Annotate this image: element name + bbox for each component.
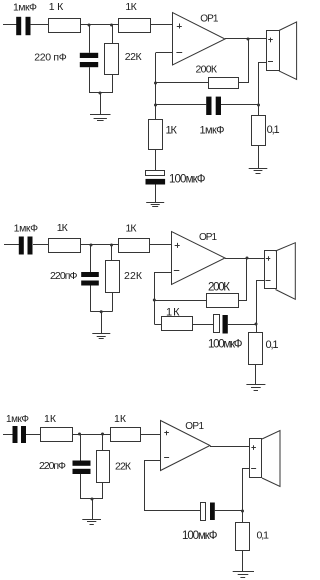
wire to ground [92, 499, 94, 519]
capacitor C5 1мкФ [14, 223, 39, 255]
svg-text:OP1: OP1 [200, 14, 219, 25]
svg-text:1К: 1К [114, 413, 127, 425]
ground [249, 169, 268, 174]
wire [89, 67, 91, 93]
node K [153, 299, 156, 302]
ground [82, 520, 101, 525]
capacitor C9 220пФ [39, 460, 91, 474]
node B [110, 24, 113, 27]
capacitor C7 100мкФ [208, 315, 243, 351]
svg-text:220пФ: 220пФ [50, 270, 78, 282]
resistor R6 1K [49, 222, 81, 253]
wire [144, 510, 201, 512]
node Q [241, 510, 244, 513]
wire node O down [102, 434, 104, 450]
node L [246, 257, 249, 260]
svg-text:1К: 1К [126, 223, 138, 235]
wire inverting input [154, 272, 171, 274]
wire to ground [100, 93, 102, 115]
svg-text:OP1: OP1 [199, 232, 217, 243]
capacitor C8 1мкФ [6, 414, 29, 443]
ground [233, 572, 254, 578]
wire to op-amp [151, 24, 173, 26]
capacitor C6 220пФ [50, 270, 99, 286]
capacitor C10 100мкФ [182, 503, 218, 543]
wire speaker minus [257, 281, 265, 334]
wire [156, 82, 209, 84]
resistor 22K [105, 44, 143, 75]
svg-text:100мкФ: 100мкФ [182, 530, 218, 542]
wire bottom join [90, 92, 112, 94]
wire [255, 365, 257, 385]
svg-text:1К: 1К [125, 1, 137, 13]
svg-text:1мкФ: 1мкФ [6, 414, 29, 425]
resistor R5 0,1 [252, 116, 280, 146]
wire [154, 324, 161, 326]
node F [247, 38, 250, 41]
svg-text:22К: 22К [115, 461, 132, 473]
resistor R3 200K [196, 64, 239, 89]
resistor R13 0,1 [236, 523, 270, 551]
resistor R12 1K [111, 413, 141, 442]
speaker LS3 [250, 431, 281, 487]
svg-text:22К: 22К [125, 51, 143, 63]
op-amp U3 OP1 [161, 421, 211, 471]
svg-text:200К: 200К [208, 282, 230, 294]
wire speaker minus [259, 63, 267, 116]
wire inverting input [144, 460, 161, 462]
wire node B down [112, 25, 114, 43]
wire [221, 104, 259, 106]
speaker LS2 [265, 243, 296, 300]
wire [228, 324, 256, 326]
node D [154, 82, 157, 85]
resistor R4 1K [149, 120, 178, 150]
wire [112, 75, 114, 93]
svg-text:1К: 1К [44, 413, 57, 425]
wire [26, 434, 40, 436]
node M [255, 323, 258, 326]
ground [246, 385, 265, 391]
wire to ground [101, 312, 103, 334]
svg-text:1мкФ: 1мкФ [14, 223, 39, 235]
wire feedback vertical [154, 272, 156, 324]
svg-text:1К: 1К [166, 307, 180, 319]
svg-text:220 пФ: 220 пФ [34, 52, 67, 64]
wire speaker minus [243, 469, 250, 523]
ground [92, 334, 110, 339]
wire inverting input [156, 52, 173, 54]
wire input 2 [4, 244, 19, 246]
wire [102, 483, 104, 500]
svg-text:1К: 1К [166, 125, 178, 137]
node I [110, 244, 113, 247]
resistor R1 1K [49, 1, 81, 33]
svg-text:0,1: 0,1 [267, 124, 280, 136]
wire to op-amp [140, 434, 161, 436]
wire node I down [111, 245, 113, 260]
svg-text:0,1: 0,1 [266, 339, 279, 351]
wire [73, 434, 111, 436]
node P [91, 498, 94, 501]
op-amp U1 OP1 [173, 13, 226, 66]
wire input 1 [3, 24, 17, 26]
wire input 3 [3, 434, 13, 436]
capacitor C1 1мкФ [13, 2, 37, 36]
wire [239, 39, 249, 83]
svg-text:200К: 200К [196, 64, 218, 76]
capacitor C3 1мкФ [200, 97, 225, 137]
resistor R7 1K [119, 223, 150, 253]
wire [258, 146, 260, 169]
wire output [225, 258, 264, 260]
wire [193, 324, 214, 326]
resistor R8 200K [207, 282, 239, 308]
node N [78, 433, 81, 436]
node A [88, 24, 91, 27]
speaker LS1 [267, 22, 297, 80]
node O [101, 433, 104, 436]
wire feedback vertical [144, 460, 146, 511]
svg-text:1К: 1К [49, 1, 64, 13]
resistor R10 0,1 [249, 333, 279, 365]
wire bottom join [91, 311, 113, 313]
wire [90, 286, 92, 312]
node E [154, 104, 157, 107]
svg-text:0,1: 0,1 [257, 530, 270, 542]
op-amp U2 OP1 [172, 232, 226, 285]
wire bottom join [81, 498, 102, 500]
wire node N down [80, 434, 82, 461]
node C [99, 92, 102, 95]
resistor R9 1K [162, 307, 193, 331]
svg-text:OP1: OP1 [185, 421, 204, 432]
svg-text:100мкФ: 100мкФ [208, 339, 243, 351]
resistor R11 1K [41, 413, 73, 442]
wire feedback vertical [155, 53, 157, 120]
svg-text:1К: 1К [57, 222, 69, 234]
wire [155, 185, 157, 203]
svg-text:22К: 22К [124, 270, 143, 282]
wire [81, 24, 120, 26]
node H [90, 244, 93, 247]
wire [81, 244, 119, 246]
wire [215, 510, 243, 512]
capacitor 220пФ [34, 52, 98, 68]
capacitor C4 100мкФ [146, 171, 206, 186]
svg-text:220пФ: 220пФ [39, 460, 66, 472]
wire output [210, 446, 250, 448]
resistor 22K [97, 451, 132, 483]
wire node H down [90, 245, 92, 272]
ground [146, 203, 164, 207]
wire node A down [89, 25, 91, 53]
wire [33, 244, 49, 246]
wire [155, 150, 157, 171]
wire [154, 300, 206, 302]
wire [156, 104, 207, 106]
resistor 22K [106, 261, 143, 293]
ground [90, 115, 111, 121]
wire [238, 258, 247, 301]
wire [112, 293, 114, 312]
wire to op-amp [150, 244, 172, 246]
wire [242, 551, 244, 572]
svg-text:1мкФ: 1мкФ [200, 125, 225, 137]
wire [80, 474, 82, 499]
node J [100, 310, 103, 313]
resistor R2 1K [119, 1, 151, 33]
wire output [225, 38, 266, 40]
node G [257, 104, 260, 107]
wire [30, 24, 49, 26]
svg-text:1мкФ: 1мкФ [13, 2, 37, 14]
svg-text:100мкФ: 100мкФ [169, 174, 206, 186]
